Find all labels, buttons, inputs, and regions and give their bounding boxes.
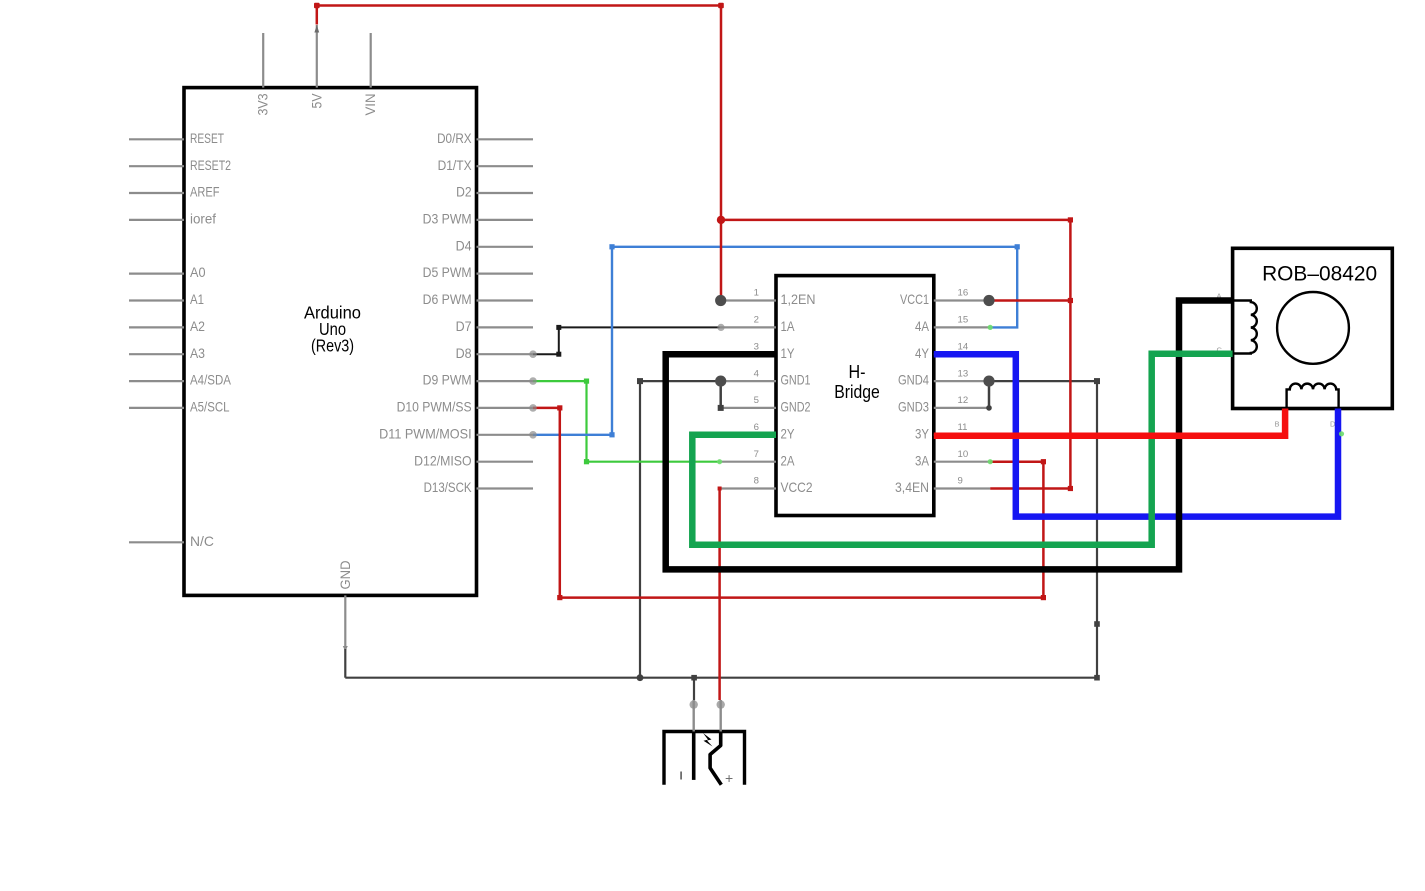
H-Bridge pin 5 GND2	[720, 395, 811, 414]
svg-text:16: 16	[958, 288, 969, 299]
svg-text:2Y: 2Y	[781, 425, 795, 441]
svg-text:A0: A0	[190, 264, 206, 280]
svg-text:11: 11	[958, 422, 968, 433]
wire D9 to 2A (green)	[533, 381, 720, 462]
pin A5/SCL (Arduino left)	[129, 399, 230, 415]
pin 3V3 (Arduino top)	[255, 33, 271, 116]
junction GND bus x640	[637, 674, 644, 681]
junction dot VCC1	[983, 295, 994, 306]
pin AREF (Arduino left)	[129, 184, 220, 200]
pin D2 (Arduino right)	[456, 184, 533, 200]
svg-text:10: 10	[958, 449, 969, 460]
svg-text:9: 9	[958, 476, 963, 487]
battery positive terminal (bent lead)	[710, 732, 721, 785]
svg-text:ioref: ioref	[190, 211, 216, 227]
wire VCC2 to battery plus (red)	[718, 489, 721, 701]
svg-text:4Y: 4Y	[915, 345, 929, 361]
svg-text:D5 PWM: D5 PWM	[423, 264, 472, 280]
pin D0/RX (Arduino right)	[437, 130, 533, 146]
motor coil B-D (bottom inductor)	[1287, 384, 1339, 409]
pin A3 (Arduino left)	[129, 345, 205, 361]
H-Bridge pin 2 1A	[720, 315, 795, 334]
wire GND net: Arduino GND down	[344, 649, 346, 678]
wire GND bus bottom	[345, 677, 1097, 679]
svg-text:4: 4	[754, 368, 760, 379]
pin GND (Arduino bottom)	[337, 561, 353, 652]
pin RESET (Arduino left)	[129, 130, 224, 146]
battery pin stubs	[690, 700, 725, 732]
motor rotor circle	[1277, 292, 1349, 364]
pin A1 (Arduino left)	[129, 291, 204, 307]
junction dot pin1 1,2EN	[715, 295, 726, 306]
wire 3Y to motor B (thick red)	[934, 409, 1285, 436]
svg-text:D8: D8	[456, 345, 472, 361]
svg-text:3V3: 3V3	[255, 93, 271, 115]
svg-text:3,4EN: 3,4EN	[895, 479, 929, 495]
pin D1/TX (Arduino right)	[438, 157, 533, 173]
H-Bridge pin 13 GND4	[898, 368, 990, 387]
svg-text:13: 13	[958, 368, 969, 379]
svg-text:1Y: 1Y	[781, 345, 795, 361]
svg-text:GND: GND	[337, 561, 353, 590]
svg-text:8: 8	[754, 476, 759, 487]
pin A2 (Arduino left)	[129, 318, 205, 334]
pin VIN (Arduino top)	[362, 33, 378, 116]
svg-text:VIN: VIN	[362, 94, 378, 116]
svg-text:D6 PWM: D6 PWM	[423, 291, 472, 307]
wire 2Y to motor C (thick green)	[692, 354, 1232, 545]
svg-text:GND3: GND3	[898, 399, 929, 415]
svg-text:D1/TX: D1/TX	[438, 157, 472, 173]
wire D11 to 4A (blue)	[533, 247, 1017, 435]
junction 5V net at x721	[717, 216, 725, 224]
svg-text:A1: A1	[190, 291, 204, 307]
pin D9 PWM (Arduino right)	[423, 372, 533, 388]
pin A0 (Arduino left)	[129, 264, 206, 280]
pin 5V (Arduino top)	[308, 25, 324, 109]
svg-text:N/C: N/C	[190, 533, 214, 549]
svg-text:1A: 1A	[781, 318, 796, 334]
svg-text:RESET2: RESET2	[190, 157, 231, 173]
svg-text:2: 2	[754, 315, 759, 326]
svg-text:A3: A3	[190, 345, 205, 361]
pin D7 (Arduino right)	[456, 318, 533, 334]
wire GND net: battery minus drop	[691, 675, 697, 700]
battery negative terminal	[692, 732, 696, 780]
svg-text:H-: H-	[849, 361, 866, 382]
svg-text:GND1: GND1	[781, 372, 811, 388]
H-Bridge pin 3 1Y	[720, 341, 795, 360]
svg-text:1,2EN: 1,2EN	[781, 291, 816, 307]
pin D4 (Arduino right)	[456, 237, 533, 253]
svg-text:3: 3	[754, 341, 759, 352]
op-amp/driver U1 H-Bridge body	[776, 276, 934, 516]
svg-text:AREF: AREF	[190, 184, 220, 200]
H-Bridge pin 16 VCC1	[900, 288, 990, 307]
svg-text:6: 6	[754, 422, 759, 433]
Arduino Uno A1 (Rev3) body	[184, 88, 477, 596]
wire 5V net branch right	[721, 220, 1070, 489]
svg-text:VCC2: VCC2	[781, 479, 813, 495]
pin D3 PWM (Arduino right)	[423, 211, 533, 227]
pin D8 (Arduino right)	[456, 345, 533, 361]
svg-text:D12/MISO: D12/MISO	[414, 452, 472, 468]
svg-text:GND2: GND2	[781, 399, 811, 415]
svg-text:14: 14	[958, 341, 969, 352]
stepper motor M1 ROB-08420 body	[1233, 248, 1393, 408]
H-Bridge pin 8 VCC2	[720, 476, 813, 495]
pin D11 PWM/MOSI (Arduino right)	[379, 425, 533, 441]
H-Bridge pin 6 2Y	[720, 422, 795, 441]
H-Bridge pin 15 4A	[915, 315, 990, 334]
svg-text:RESET: RESET	[190, 130, 224, 146]
pin ioref (Arduino left)	[129, 211, 216, 227]
wire 4Y to motor D (thick blue)	[934, 354, 1338, 516]
pin D6 PWM (Arduino right)	[423, 291, 533, 307]
svg-text:D4: D4	[456, 237, 472, 253]
H-Bridge pin 11 3Y	[915, 422, 990, 441]
H-Bridge pin 4 GND1	[720, 368, 811, 387]
pin A4/SDA (Arduino left)	[129, 372, 232, 388]
svg-text:+: +	[725, 770, 733, 786]
battery minus label	[680, 772, 682, 780]
junction dot GND4	[983, 376, 994, 387]
pin RESET2 (Arduino left)	[129, 157, 231, 173]
svg-text:B: B	[1275, 419, 1280, 428]
svg-text:GND4: GND4	[898, 372, 929, 388]
wire 1Y to motor A (thick black)	[666, 301, 1233, 570]
svg-text:12: 12	[958, 395, 969, 406]
svg-text:5V: 5V	[308, 93, 324, 109]
svg-text:D9 PWM: D9 PWM	[423, 372, 472, 388]
wire D10 to 3A (red)	[533, 408, 1043, 598]
svg-text:7: 7	[754, 449, 759, 460]
wire GND net: left bend down to bus	[639, 381, 641, 678]
svg-text:Bridge: Bridge	[834, 381, 880, 402]
svg-text:D7: D7	[456, 318, 472, 334]
svg-text:5: 5	[754, 395, 759, 406]
svg-text:D11 PWM/MOSI: D11 PWM/MOSI	[379, 425, 472, 441]
wire GND net: GND1 to left bend	[637, 378, 720, 384]
wire GND net: GND4 to right	[989, 378, 1100, 384]
5V pin arrow cap	[314, 25, 319, 33]
connection dots (green)	[717, 459, 722, 464]
wire GND net: right vertical down	[1094, 381, 1100, 680]
H-Bridge pin 10 3A	[915, 449, 990, 468]
svg-text:3Y: 3Y	[915, 425, 929, 441]
svg-text:D10 PWM/SS: D10 PWM/SS	[397, 399, 472, 415]
svg-text:ROB–08420: ROB–08420	[1262, 263, 1377, 286]
pin D12/MISO (Arduino right)	[414, 452, 533, 468]
wire end cap on 1A	[717, 324, 724, 331]
svg-text:2A: 2A	[781, 452, 796, 468]
svg-text:D2: D2	[456, 184, 472, 200]
svg-text:4A: 4A	[915, 318, 930, 334]
wire 5V net to VCC1	[989, 299, 1070, 302]
wire 5V net (red): 5V up and across top	[317, 6, 721, 301]
wire GND4 to GND3 vertical	[986, 381, 992, 411]
H-Bridge pin 7 2A	[720, 449, 795, 468]
svg-text:A2: A2	[190, 318, 205, 334]
pin D13/SCK (Arduino right)	[424, 479, 533, 495]
pin N/C (Arduino left)	[129, 533, 214, 549]
svg-text:VCC1: VCC1	[900, 291, 929, 307]
pin D5 PWM (Arduino right)	[423, 264, 533, 280]
svg-text:(Rev3): (Rev3)	[311, 336, 354, 356]
H-Bridge pin 12 GND3	[898, 395, 990, 414]
wire D8 to 1A (black)	[533, 327, 720, 354]
svg-text:A5/SCL: A5/SCL	[190, 399, 230, 415]
svg-text:3A: 3A	[915, 452, 930, 468]
pin D10 PWM/SS (Arduino right)	[397, 399, 533, 415]
svg-text:1: 1	[754, 288, 759, 299]
wire end caps on Arduino D8-D11	[529, 350, 537, 358]
svg-text:15: 15	[958, 315, 969, 326]
H-Bridge pin 9 3,4EN	[895, 476, 990, 495]
svg-text:D13/SCK: D13/SCK	[424, 479, 473, 495]
motor coil A-C (left inductor)	[1233, 301, 1257, 354]
H-Bridge pin 1 1,2EN	[720, 288, 816, 307]
junction dot GND1	[715, 376, 726, 387]
battery BT1 outline	[664, 732, 745, 785]
svg-text:D0/RX: D0/RX	[437, 130, 472, 146]
H-Bridge pin 14 4Y	[915, 341, 990, 360]
svg-text:A4/SDA: A4/SDA	[190, 372, 232, 388]
battery lightning bolt	[703, 733, 713, 747]
wire GND1 to GND2 vertical	[718, 381, 724, 411]
svg-text:D3 PWM: D3 PWM	[423, 211, 472, 227]
